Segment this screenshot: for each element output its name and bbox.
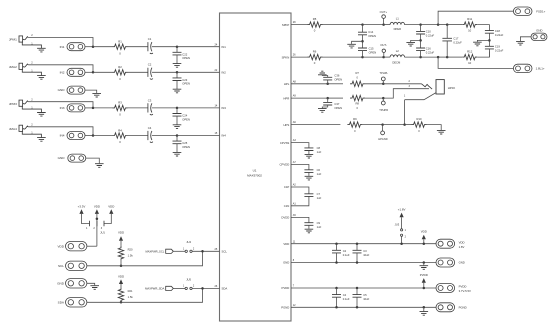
svg-text:U1: U1 [253,168,257,172]
svg-text:GND: GND [459,261,465,265]
ground of C14/C15 [347,44,356,48]
svg-text:JU5: JU5 [186,277,191,281]
ground of jack JPM3 [37,113,46,117]
svg-text:C16: C16 [426,47,431,51]
wire C24 to ground [176,116,178,125]
svg-text:IN4: IN4 [222,134,227,138]
junction SCL [201,250,204,253]
test point SDA [66,298,87,307]
svg-text:C36: C36 [334,74,339,78]
node C17 top [446,23,449,26]
ground of GND tp2 [95,164,104,168]
svg-text:R3: R3 [118,101,122,105]
wire C17 to SPKN line [446,41,448,57]
wire SPKN pin to R6 [291,56,308,58]
wire to C5 [356,288,358,295]
wire C3 to lower rail [356,253,358,263]
capacitor C19 [485,46,494,49]
wire into IC pin [177,135,220,137]
svg-text:C17: C17 [453,37,458,41]
svg-text:C19: C19 [495,45,500,49]
resistor R4 [113,133,128,138]
wire OUT- loop stem [383,53,385,58]
jumper JU3 [401,229,403,231]
wire SCL tp to SCL node [87,251,203,265]
svg-text:JMA2: JMA2 [9,65,17,69]
svg-text:0.22uF: 0.22uF [426,51,435,55]
node SPKP/C14 [361,23,364,26]
wire HPS pin to R9 [291,124,340,126]
capacitor C4 [332,295,341,298]
svg-text:+1.8V: +1.8V [398,208,406,212]
wire R9 to HPGND node [362,124,382,126]
wire OUT- node to L2 [384,56,391,58]
wire into IC pin [177,46,220,48]
svg-text:10: 10 [468,28,472,32]
wire to FSD node [421,24,439,26]
capacitor C23 (shunt, open) [173,78,182,81]
wire JU5 to SDA pin [192,287,219,289]
ground of C8 [305,154,314,158]
wire OUT+ node to L1 [384,24,391,26]
wire R10 to ground [427,125,442,130]
svg-text:L1: L1 [396,16,400,20]
junction C3 bottom [356,261,359,264]
wire R1 to C1 [128,46,149,48]
svg-text:PVDD: PVDD [282,286,290,290]
wire C4 to shunt node [152,135,177,137]
wire to C3 [356,244,358,251]
wire HPL to jack tip [383,83,421,85]
wire to C17 bottom [438,56,447,58]
wire R20 to SCL line [120,261,122,266]
wire down to C25 [176,136,178,142]
svg-text:IN1: IN1 [222,45,227,49]
capacitor C18 [485,31,494,34]
wire node to R4 [93,135,113,137]
junction C3 top [356,242,359,245]
wire GND rail [291,262,436,264]
wire to lower branch node [421,56,439,58]
node shunt C24 [176,107,179,110]
wire R6 to C15 node [323,56,363,58]
svg-text:OPEN: OPEN [182,145,190,149]
wire gnd tp right to ground [520,37,531,41]
svg-text:JPM1: JPM1 [9,38,17,42]
junction GND stub [423,261,426,264]
svg-text:GND: GND [58,88,66,92]
wire C23 to ground [176,81,178,90]
HPJK tip switch contact [422,84,433,89]
wire down to C22 [176,47,178,53]
wire +1.8V arrow to JU3 [401,217,403,228]
svg-text:R2: R2 [118,65,122,69]
capacitor C25 (shunt, open) [173,141,182,144]
wire VDD tp to JU1 [87,245,97,247]
junction SDA [201,287,204,290]
svg-text:GND: GND [536,28,542,32]
junction C18/C19 mid [488,39,491,42]
test point IN4 [67,132,85,140]
ground of GND tp3 [90,286,99,290]
ground of C36 (inverted) [318,71,327,75]
svg-text:C24: C24 [182,114,187,118]
svg-text:1.8L1+: 1.8L1+ [536,67,545,71]
wire C22 to ground [176,55,178,64]
wire to C2 [336,244,338,251]
ground of C9 [305,229,314,233]
svg-text:C4: C4 [343,293,347,297]
junction C2 top [335,242,338,245]
wire SPKP pin to R5 [291,24,308,26]
node shunt C22 [176,45,179,48]
svg-text:SCL: SCL [222,250,228,254]
node shunt C25 [176,134,179,137]
wire C8 to ground [308,151,310,155]
wire tp IN4 to node [85,135,93,137]
resistor R11 [462,22,477,27]
test point PVDD [436,284,455,293]
test loop OUT- [382,49,385,52]
svg-text:R9: R9 [353,117,357,121]
svg-text:CPVSS: CPVSS [280,141,290,145]
svg-text:VDD: VDD [421,230,427,234]
test point FSD1+ [513,7,532,15]
wire C18 to C19 [488,33,490,46]
jumper JU1 pins [90,221,105,226]
svg-text:C15: C15 [369,47,374,51]
wire C25 to ground [176,144,178,153]
svg-text:JPM3: JPM3 [9,102,17,106]
wire R5 to C14 node [323,24,363,26]
resistor R2 [113,70,128,75]
wire JU3 to VDD rail [401,236,403,243]
wire C7 to C1N pin [291,196,309,205]
svg-text:C10: C10 [426,29,431,33]
ground of C10/C16 [406,42,415,46]
svg-text:GND: GND [57,282,65,286]
wire flag to JU4 [173,250,185,252]
wire C6 to ground [308,172,310,176]
capacitor C5 [353,295,362,298]
wire to C4 [336,288,338,295]
wire down to C24 [176,108,178,114]
ground of GND rail [420,266,429,270]
svg-text:IN1: IN1 [60,45,65,49]
wire C1P stub to C7 [291,187,309,194]
wire C14 to C15 [362,35,364,48]
svg-text:OPEN: OPEN [334,78,342,82]
wire C17 to R12 [447,56,462,58]
wire HPR to jack ring [383,89,429,98]
test point GND (lower left) [68,154,86,162]
svg-text:C8: C8 [317,146,321,150]
svg-text:VDD: VDD [459,240,465,244]
resistor R1 [113,44,128,49]
svg-text:VDD: VDD [283,242,289,246]
node HPGND tp [381,123,384,126]
svg-text:JU4: JU4 [186,240,191,244]
wire C6 pin stub [291,165,309,170]
svg-text:0.22uF: 0.22uF [495,33,504,37]
svg-text:OPEN: OPEN [334,106,342,110]
svg-text:PVDD: PVDD [420,273,428,277]
node OUT- [382,56,385,59]
svg-text:PVDD: PVDD [459,285,467,289]
svg-text:FSD1+: FSD1+ [536,9,545,13]
svg-text:MAXPWR_SCL: MAXPWR_SCL [145,250,164,254]
svg-text:IN3: IN3 [60,106,65,110]
wire node to R2 [93,71,113,73]
svg-text:3.7V-5.5V: 3.7V-5.5V [459,289,471,293]
ground of jack JPM1 [37,48,46,52]
wire down to C23 [176,72,178,78]
wire to OUT+ node [363,24,384,26]
junction JU1 pin2 [96,217,99,220]
wire node to R3 [93,107,113,109]
junction PVDD arrow [423,287,426,290]
wire C36 to inverted ground [322,75,327,78]
svg-text:C3: C3 [363,249,367,253]
svg-text:10uF: 10uF [363,253,369,257]
svg-text:JU1: JU1 [100,231,105,235]
svg-text:C14: C14 [368,30,373,34]
ground of C24 [173,125,182,129]
wire R8 to TPHPR node [365,97,383,99]
wire down to C37 [327,98,329,102]
ground of jack JMA4 [37,138,46,142]
wire JU4 to SCL pin [192,250,219,252]
svg-text:C3: C3 [148,98,152,102]
capacitor C15 (open) [358,48,367,51]
wire GND rail to ground [423,263,425,266]
wire tp IN2 to node [85,71,93,73]
svg-text:10uF: 10uF [363,297,369,301]
wire R4 to C4 [128,135,149,137]
svg-text:CPVDD: CPVDD [280,163,290,167]
svg-text:IN3: IN3 [222,106,227,110]
test point GND (upper left) [67,86,85,94]
ground of C22 [173,64,182,68]
wire JMA2 tip to node [28,65,93,73]
capacitor C6 [304,170,313,173]
wire arrow to R21 [120,284,122,287]
svg-text:MAXPWR_SDA: MAXPWR_SDA [145,287,164,291]
svg-text:HPL: HPL [284,82,290,86]
wire R11 to C18 [477,25,489,31]
power arrow VDD R21 [119,279,123,284]
svg-text:10: 10 [468,61,472,65]
test loop TPHPR [381,101,385,105]
svg-text:DECM: DECM [392,61,401,65]
wire gnd tp2 to ground [86,158,100,163]
wire mid to ground [477,40,489,41]
wire sleeve down to HPS line [404,100,406,125]
svg-text:OPEN: OPEN [182,82,190,86]
junction C5 top [356,287,359,290]
wire C5 to lower rail [356,297,358,307]
wire HPGND stem [382,125,384,131]
svg-text:MAX97002: MAX97002 [247,173,262,177]
capacitor C14 (open) [358,32,367,35]
svg-text:C9: C9 [317,221,321,225]
svg-text:0.1uF: 0.1uF [343,297,350,301]
wire gnd tp1 to ground [85,90,97,93]
svg-text:C1N: C1N [284,204,290,208]
node C16 bottom [419,56,422,59]
test point VDD (lower left) [66,242,87,251]
junction R21/SDA [120,301,123,304]
svg-text:OUT+: OUT+ [380,10,388,14]
test point GND (right) [436,258,455,267]
wire C9 pin stub [291,217,309,222]
svg-text:OUT-: OUT- [380,43,387,47]
svg-text:R21: R21 [128,289,133,293]
ground of GND tp right [516,41,525,45]
wire R2 to C2 [128,71,149,73]
wire HPR pin to node [291,97,328,99]
wire PVDD arrow to rail [423,283,425,288]
capacitor C1 (series) [148,42,153,54]
svg-text:C22: C22 [182,52,187,56]
capacitor C4 (series) [148,131,153,143]
node SPKN/C15 [361,56,364,59]
svg-text:1uF: 1uF [317,196,322,200]
ground of jack JMA2 [37,76,46,80]
headphone jack HPJK body [436,80,444,94]
wire into IC pin [177,107,220,109]
capacitor C37 (open) [323,102,332,105]
wire PVDD rail [291,287,436,289]
node IN4 [92,134,95,137]
svg-text:C2: C2 [148,63,152,67]
svg-text:HPS: HPS [284,123,290,127]
wire OUT+ loop stem [383,18,385,24]
wire C15 to SPKN [362,51,364,58]
resistor R10 [412,122,427,127]
wire VDD arrow to JU1 pin3 [104,214,111,224]
svg-text:GND: GND [283,261,289,265]
svg-text:JU3: JU3 [395,222,400,226]
junction JU3/VDD [400,242,403,245]
wire JPM3 tip to node [28,102,93,108]
test point IN2 [67,68,85,76]
svg-text:HPR: HPR [283,96,289,100]
wire to C17 top [438,24,447,26]
svg-text:C18: C18 [495,29,500,33]
test point GND (top right) [531,33,547,40]
jack JPM1 [19,36,41,48]
wire tp IN1 to node [85,46,93,48]
capacitor C2 [332,250,341,253]
wire C8 pin stub [291,143,309,148]
svg-text:0.1uF: 0.1uF [343,253,350,257]
junction R20/SCL [120,265,123,268]
wire tp IN3 to node [85,107,93,109]
svg-text:C5: C5 [363,293,367,297]
wire into IC pin [177,71,220,73]
node IN2 [92,71,95,74]
node OUT+ [382,23,385,26]
node HPR/C37 [326,97,329,100]
test point IN3 [67,104,85,112]
wire +3.3V arrow to JU1 pin1 [82,214,90,224]
wire up to C36 [327,80,329,84]
resistor R3 [113,105,128,110]
wire SDA tp to SDA node [87,288,203,302]
svg-text:JMA4: JMA4 [9,127,17,131]
resistor R5 [308,22,323,27]
svg-text:C4: C4 [148,126,152,130]
junction C4 bottom [335,306,338,309]
capacitor C22 (shunt, open) [173,52,182,55]
svg-text:DVDD: DVDD [281,216,289,220]
wire node to R1 [93,46,113,48]
wire to 1.8L1+ test point [438,57,513,68]
svg-text:VDD: VDD [118,275,124,279]
wire L2 to C16 node [405,56,421,58]
node C10 top [419,23,422,26]
capacitor C3 (series) [148,103,153,115]
wire C9 to ground [308,225,310,229]
wire C37 to ground [322,105,327,108]
svg-text:1.5k: 1.5k [128,295,134,299]
test loop HPGND [381,131,385,135]
svg-text:VDD: VDD [108,204,114,208]
wire node to R8 [328,97,343,99]
wire C16 to SPKN line [420,51,422,58]
svg-text:1uF: 1uF [317,225,322,229]
wire C10 to C16 [420,34,422,48]
svg-text:C1: C1 [148,37,152,41]
test point VDD (right) [436,239,455,248]
svg-text:IN2: IN2 [60,71,65,75]
svg-text:R12: R12 [467,50,473,54]
junction PGND stub [423,306,426,309]
svg-text:OPEN: OPEN [182,117,190,121]
jack JMA2 [19,63,41,75]
svg-text:PGND: PGND [281,306,289,310]
svg-text:C25: C25 [182,141,187,145]
node C17 bottom [446,56,449,59]
ground of C6 [305,176,314,180]
power arrow PVDD [422,278,426,283]
wire TPHPL stem [382,81,384,84]
capacitor C2 (series) [148,68,153,80]
ground of R10 [437,130,446,134]
svg-text:TPHPR: TPHPR [379,108,388,112]
wire TPHPR stem [382,98,384,101]
net flag MAXPWR_SCL [166,249,174,253]
wire C19 down to R12 line [488,49,490,57]
resistor R20 [118,246,123,261]
ground of C37 [318,109,327,113]
resistor R7 [350,81,365,86]
ground of C23 [173,89,182,93]
wire to OUT- node [363,56,384,58]
svg-text:C2: C2 [343,249,347,253]
power arrow VDD mid [95,209,99,214]
node FSD1+ branch [437,23,440,26]
svg-text:C7: C7 [317,192,321,196]
capacitor C7 (flying) [304,194,313,197]
test point IN1 [67,43,85,51]
wire JMA4 tip to node [28,127,93,136]
resistor R21 [118,287,123,302]
svg-text:+3.3V: +3.3V [78,204,86,208]
capacitor C3 [353,250,362,253]
svg-text:HPGND: HPGND [378,137,387,141]
